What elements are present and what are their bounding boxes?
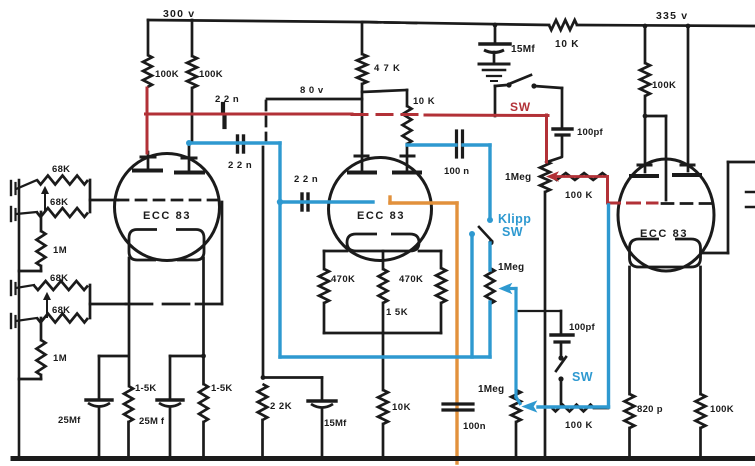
svg-text:1M: 1M [53,353,67,364]
wire blue vertical interstage [278,143,281,357]
resistor R 100K-c [644,26,647,63]
resistor R 100K-b plate load [191,20,194,56]
svg-text:SW: SW [502,225,523,239]
resistor R 100K-red [552,173,607,180]
svg-text:100K: 100K [710,404,734,415]
capacitor C 25Mf-1 [86,398,112,401]
wire jack1 to 68K-1 [16,180,37,189]
wire V3 left cathode leg [628,267,631,394]
wire dashed drop at 80v [265,101,268,140]
wire red V1 plate feed [146,88,149,153]
svg-text:68K: 68K [50,197,68,208]
capacitor C 25Mf-1 branch [99,355,129,358]
wire 100pf to pot top [547,137,562,162]
wire V2 cathode stem [382,251,385,269]
svg-text:15Mf: 15Mf [324,418,347,429]
wire 2.2K node to 15Mf [263,376,322,379]
wire red drop to pot1 [545,115,548,162]
capacitor C 100pf-2 [560,311,563,333]
potentiometer 1Meg-2 upper [486,268,495,304]
wire blue V1 plate to feedback [186,140,192,146]
resistor R 68K-1 [37,176,88,185]
wire blue right vertical [607,205,610,407]
resistor R 68K-3 [34,281,88,290]
wire 47K bottom to tube2 left plate [361,84,364,170]
svg-text:15Mf: 15Mf [511,44,535,55]
svg-text:68K: 68K [52,164,70,175]
wire V2 to 10K-3 [382,333,385,390]
wire 68K pair-2 join [89,285,92,318]
svg-text:470K: 470K [399,274,423,285]
resistor R 820p [625,394,635,428]
svg-text:100K: 100K [199,69,223,80]
svg-text:335 v: 335 v [656,10,688,22]
arrow jack switch 2 [46,297,48,317]
svg-text:1 5K: 1 5K [386,307,408,318]
tube V3 cathode [630,239,701,267]
switch SW2 lever [556,357,566,371]
node rail-right-plate junction [686,24,691,29]
svg-text:10 K: 10 K [413,96,435,107]
svg-text:1Meg: 1Meg [478,384,504,395]
resistor R 2.2K [258,384,268,420]
wire V3 right cathode leg [699,267,702,394]
capacitor C 22n-B [236,136,239,152]
svg-text:1-5K: 1-5K [135,383,156,394]
capacitor C 100pf-1 [553,127,572,130]
tube V1 right cathode [176,230,204,261]
svg-text:ECC 83: ECC 83 [357,210,405,222]
wire rail to 15Mf cap [494,25,497,42]
resistor R 470K-L [319,269,329,303]
wire 80v line [267,98,362,101]
capacitor C 25Mf-2 branch [170,355,204,358]
ground symbol [479,63,509,66]
svg-text:8 0 v: 8 0 v [300,85,324,96]
capacitor C 100n-1 [455,131,458,157]
svg-text:300 v: 300 v [163,8,195,20]
wire V1 right cathode leg [202,258,205,384]
wire blue to V2 grid [280,200,373,203]
capacitor C 100n-2 [443,402,473,405]
svg-text:100n: 100n [463,421,486,432]
svg-text:Klipp: Klipp [498,212,531,226]
node rail-15Mf junction [493,23,498,28]
resistor R 1.5K-2 [199,384,208,422]
wire 22n-B to 2.2K node [262,147,265,377]
wire 68K pair-1 join [89,180,92,212]
wire red wiper arrow [548,173,558,181]
wire grid-2 feed vertical [221,202,224,304]
svg-text:25Mf: 25Mf [58,415,81,426]
wire wiper to 100pf-2 [516,310,561,312]
wire V3 right plate stem [687,26,690,171]
potentiometer 1Meg-1 [540,161,550,192]
jack J4 contact [10,314,12,328]
node rail-100K junction [643,24,648,29]
capacitor C 22n-C [300,194,303,210]
wire top rail dashed joint [363,22,416,23]
svg-text:68K: 68K [52,305,70,316]
resistor R 100K-lower [552,405,594,412]
tube V1 left cathode [129,230,157,261]
tube V1 grid dashed line [118,199,218,202]
capacitor C 22n-A on red line [221,104,225,113]
switch Klipp lever [479,227,492,241]
tube V3 left plate [638,164,651,167]
svg-text:10K: 10K [392,402,411,413]
resistor R 100K-d [696,394,706,428]
resistor R 47K [361,22,364,54]
svg-text:100 K: 100 K [565,420,593,431]
svg-text:4 7 K: 4 7 K [374,63,401,74]
svg-text:100pf: 100pf [577,127,603,138]
tube V3 right plate [681,164,694,167]
tube V1 left plate [147,152,150,169]
wire blue bottom horizontal [280,355,490,358]
svg-text:100pf: 100pf [569,322,595,333]
resistor R 1M-1 [40,212,43,231]
svg-text:1Meg: 1Meg [498,262,524,273]
svg-text:820 p: 820 p [637,404,663,415]
potentiometer 1Meg-3 lower [511,390,521,422]
wire pot1 bottom to ground rail [544,192,547,456]
svg-text:1-5K: 1-5K [211,383,232,394]
node 100K-c bottom [643,114,648,119]
capacitor C 15Mf-2 [308,399,336,402]
tube V3 grid dashes right [746,191,755,194]
svg-text:25M f: 25M f [139,416,165,427]
wire orange vertical [455,203,458,463]
tube V2 cathode [347,234,419,251]
node blue V2 grid tap [277,199,283,205]
resistor R 68K-4 [37,314,88,323]
jack J2 contact [10,207,12,221]
svg-text:ECC 83: ECC 83 [143,210,191,222]
svg-text:1M: 1M [53,245,67,256]
tube V2 left plate [355,155,368,158]
wire V1 left cathode leg [128,258,131,386]
svg-text:2 2 n: 2 2 n [215,94,239,105]
tube V1 right plate [188,143,191,170]
wire V2 cathode bottom left [324,250,347,253]
wire red-line node up to switch SW1 [494,86,497,116]
jack J1 contact [10,181,12,195]
svg-text:SW: SW [510,100,531,114]
resistor R 100K-a plate load [147,20,150,55]
switch SW2 contacts [560,344,563,356]
tube V2 right plate [401,155,414,158]
wire jack2 to 68K-2 [16,212,37,214]
tube V1 ECC83 envelope [115,154,220,261]
svg-text:10 K: 10 K [555,39,579,50]
node V1 right cathode junction [201,354,206,359]
arrow jack switch 1 [44,191,46,211]
wire jack3 to 68K-3 [16,285,34,288]
svg-text:68K: 68K [50,273,68,284]
node 2.2K top [261,375,266,380]
svg-text:2 2K: 2 2K [270,401,292,412]
wire V3 grid feed [645,115,666,118]
wire orange horizontal [390,201,457,204]
tube V1 grid wire from input block [90,199,118,202]
tube V3 ECC83 envelope [618,159,714,271]
resistor R 1M-2 [40,318,43,340]
wire switch to 100pf [534,86,562,88]
wire orange V2 grid tap [388,197,391,203]
jack J3 contact [10,281,12,295]
svg-text:100 K: 100 K [565,190,593,201]
wire V3 left plate stem [644,116,647,172]
svg-text:470K: 470K [331,274,355,285]
tube V3 grid dashed line [662,202,712,205]
wire red main horizontal [146,113,353,116]
wire V2 cathode bottom right [419,250,441,253]
wire blue Klipp left branch [470,235,473,357]
wire V2 cathode network bottom [323,303,326,333]
resistor R 10K top rail [549,20,577,30]
wire red to V3 grid [606,177,609,204]
resistor R 470K-R [436,268,446,303]
capacitor C 15Mf filter [480,42,510,46]
wire V3 output loop [728,161,755,164]
wire blue Klipp right branch [488,243,491,270]
wire ground rail bottom [13,456,755,461]
wire 47K node to 10K top [362,90,407,92]
svg-text:100K: 100K [155,69,179,80]
resistor R 10K-3 [378,390,388,424]
svg-text:1Meg: 1Meg [505,172,531,183]
wire input ground bus [18,180,21,458]
wire blue to wiper-3 [538,405,609,408]
wire grid-2 feed horizontal [90,303,126,306]
switch SW1 contacts [506,82,511,87]
wire jack4 to 68K-4 [16,318,37,321]
resistor R 1.5K-1 [124,386,133,422]
svg-text:100K: 100K [652,80,676,91]
resistor R 68K-2 [37,208,88,217]
svg-text:SW: SW [572,370,593,384]
svg-text:100 n: 100 n [444,166,469,177]
wire SW2 to 100K-lower [560,379,563,404]
capacitor C 25Mf-2 [157,398,183,401]
switch SW1 lever [509,75,531,84]
wire blue V2 plate to Klipp switch [407,143,456,146]
wire blue wiper-1 link [500,284,511,293]
svg-text:2 2 n: 2 2 n [294,174,318,185]
resistor R 1.5K-3 [379,269,388,303]
svg-text:2 2 n: 2 2 n [228,160,252,171]
wire 300v top supply rail [148,20,549,25]
resistor R 10K-2 [406,90,409,106]
tube V2 ECC83 envelope [329,158,432,261]
